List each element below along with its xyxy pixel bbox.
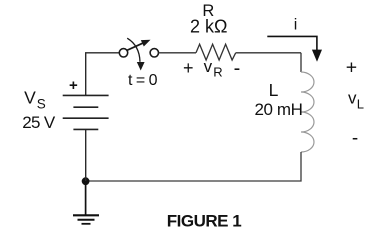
label VS (24, 88, 46, 112)
svg-text:25 V: 25 V (22, 113, 56, 132)
svg-text:v: v (204, 57, 213, 76)
junction dot (82, 177, 90, 185)
wire switch to resistor (159, 52, 197, 54)
label t = 0 (128, 72, 158, 89)
svg-text:FIGURE 1: FIGURE 1 (167, 211, 241, 230)
svg-text:t = 0: t = 0 (128, 72, 158, 89)
label L (269, 80, 279, 100)
label - for vR (234, 57, 241, 79)
label 25 V (22, 113, 56, 132)
resistor R zigzag (196, 44, 236, 60)
label + for vR (183, 58, 194, 78)
svg-text:S: S (37, 97, 46, 112)
battery VS plates (63, 95, 109, 129)
svg-text:i: i (294, 16, 298, 33)
wire inductor to bottom-right corner (86, 152, 301, 181)
label - for vL (352, 128, 358, 149)
svg-text:+: + (346, 56, 357, 78)
svg-text:-: - (352, 128, 358, 149)
svg-text:20 mH: 20 mH (254, 100, 302, 119)
switch blade with arrow (126, 40, 150, 51)
svg-text:L: L (269, 80, 279, 100)
wire top-right corner down to inductor (300, 53, 302, 72)
wire battery bottom (85, 129, 87, 181)
caption FIGURE 1 (167, 211, 241, 230)
inductor L coil (301, 72, 314, 152)
svg-text:R: R (213, 64, 222, 79)
wire battery top to switch (86, 53, 120, 96)
svg-text:+: + (183, 58, 194, 78)
label 20 mH (254, 100, 302, 119)
switch right contact (150, 49, 158, 57)
label + for vL (346, 56, 357, 78)
svg-text:-: - (234, 57, 241, 79)
svg-text:L: L (357, 96, 364, 111)
svg-text:2 kΩ: 2 kΩ (190, 16, 227, 36)
label R (202, 2, 214, 20)
svg-text:V: V (24, 88, 36, 108)
label vR (204, 57, 223, 79)
switch closing arc t=0 (127, 38, 144, 70)
label vL (348, 88, 364, 111)
svg-text:v: v (348, 88, 357, 107)
battery plus sign (69, 77, 78, 94)
svg-text:+: + (69, 77, 78, 94)
label i (294, 16, 298, 33)
ground (73, 181, 99, 224)
wire resistor to top-right corner (236, 52, 301, 54)
switch left contact (119, 49, 127, 57)
label 2 kOhm (190, 16, 227, 36)
current arrow i (267, 36, 322, 61)
